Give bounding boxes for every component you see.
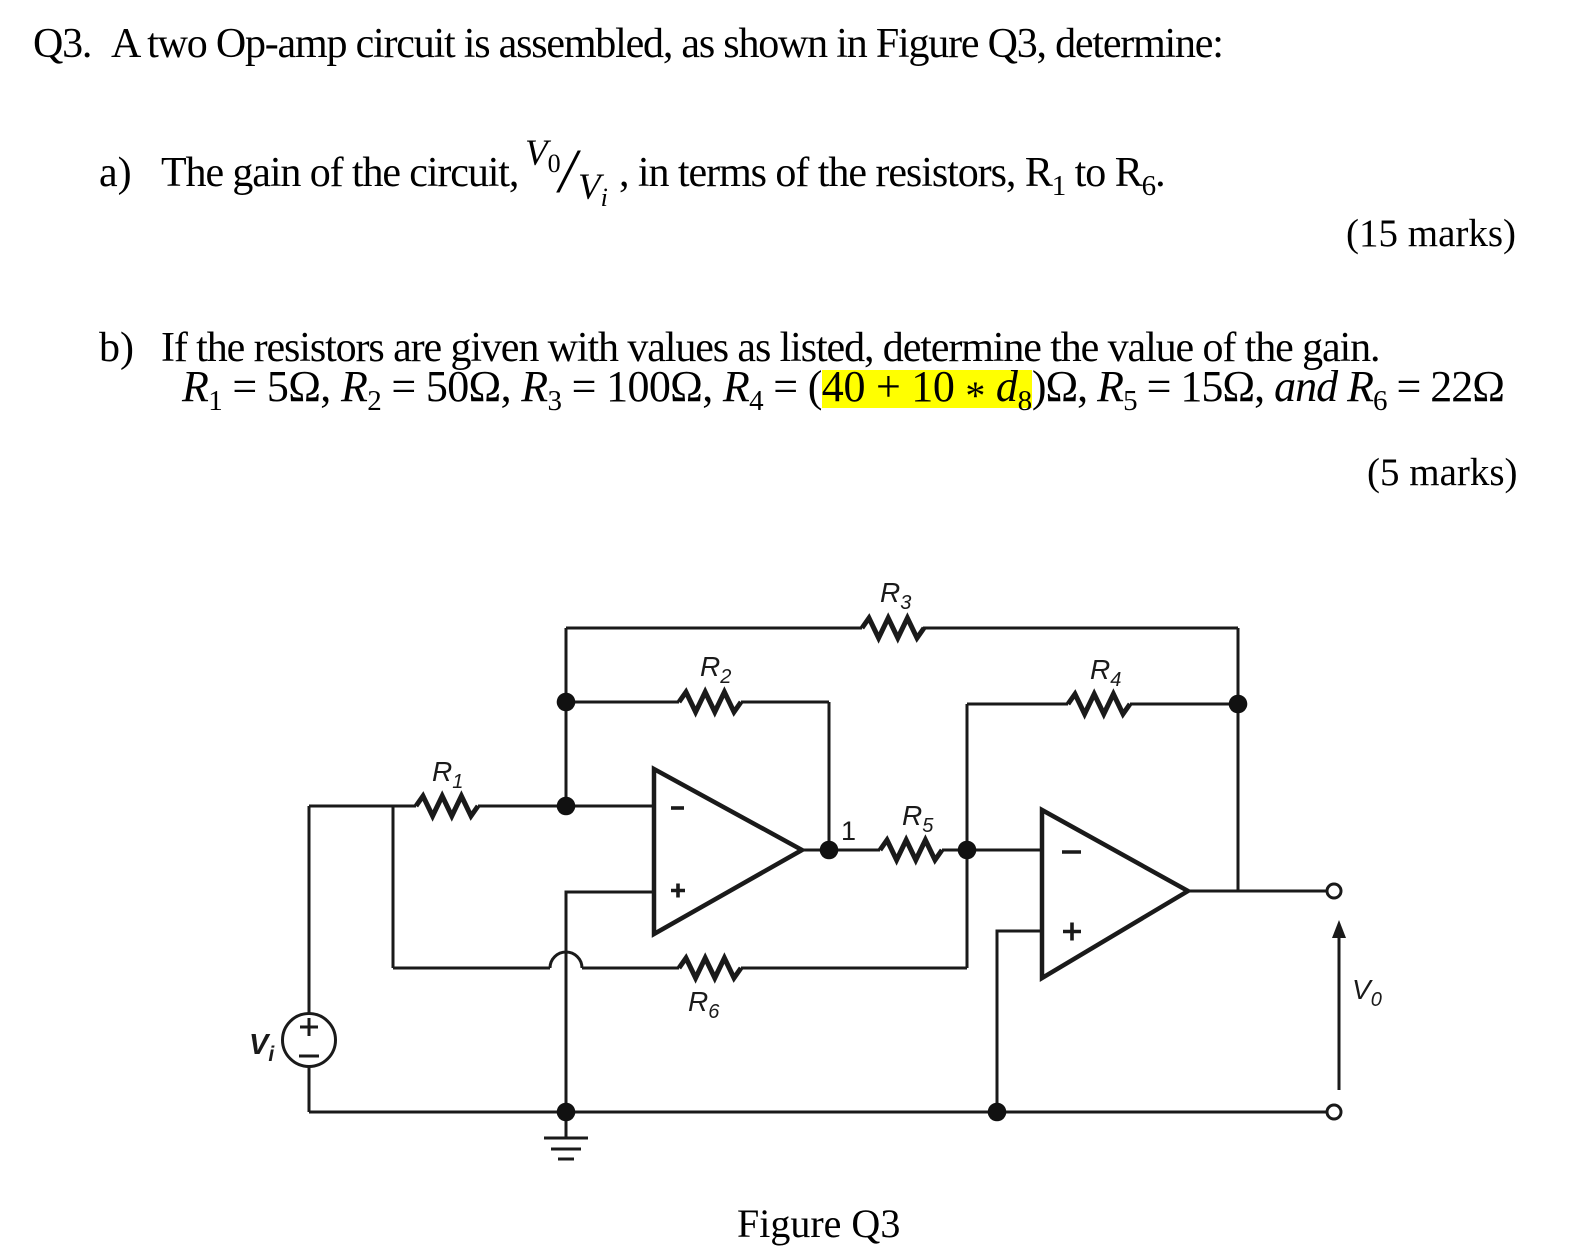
svg-text:V0: V0 <box>1352 974 1382 1011</box>
Vo arrow <box>1332 920 1346 1090</box>
fraction Vo/Vi <box>525 130 645 220</box>
wire: Vi source bottom lead <box>308 1066 311 1112</box>
op-amp U1 <box>654 769 802 934</box>
wire: R2 left segment <box>566 701 679 704</box>
op-amp U2 plus sign <box>1063 923 1081 941</box>
wire: hop over vertical (crossing arc) <box>550 952 582 968</box>
junction dot: op1 inverting node <box>557 797 576 816</box>
resistor R1 <box>416 796 478 816</box>
figure caption <box>737 1204 900 1244</box>
junction dot: op2 + ground node <box>988 1103 1007 1122</box>
wire: R6 rail right segment <box>741 967 967 970</box>
wire: Vi source top lead <box>308 806 311 1014</box>
wire: right vertical from R3 down to output <box>1237 628 1240 891</box>
wire: op2 non-inverting input down to ground rail <box>997 931 1042 1112</box>
junction dot: node A (R2/left bus) <box>557 693 576 712</box>
(5 marks) <box>1367 453 1518 492</box>
wire: top feedback (R3) right segment <box>923 627 1238 630</box>
wire: R2 right vertical down to op1 output <box>828 702 831 850</box>
resistor R5 <box>880 840 942 860</box>
ground <box>544 1112 588 1159</box>
wire: R1 to op1 inverting input <box>478 805 654 808</box>
svg-text:R3: R3 <box>880 577 911 614</box>
wire: R4 left segment <box>967 703 1068 706</box>
svg-text:R1: R1 <box>432 756 463 793</box>
wire: branch vertical down to R6 rail <box>392 806 395 968</box>
line a) <box>99 152 132 194</box>
wire: node B to op2 inverting input <box>967 849 1042 852</box>
svg-text:Vi: Vi <box>249 1029 275 1066</box>
terminal: output bottom <box>1327 1105 1341 1119</box>
junction dot: node 1 (op1 output) <box>820 841 839 860</box>
line b) <box>99 327 134 369</box>
source Vi plus sign <box>300 1018 318 1036</box>
op-amp U2 minus sign <box>1062 850 1081 854</box>
source Vi minus sign <box>299 1055 319 1058</box>
math values line <box>822 370 1032 408</box>
resistor R3 <box>862 618 924 638</box>
line 1: question text <box>33 23 1223 65</box>
wire: op1 non-inverting input down to ground rail <box>566 892 654 1112</box>
resistor R6 <box>679 958 741 978</box>
op-amp U2 <box>1042 810 1188 978</box>
wire: op1 output to R5 <box>802 849 880 852</box>
junction dot: R3/R4 right node <box>1229 695 1248 714</box>
source Vi <box>283 1014 336 1067</box>
(15 marks) <box>1346 214 1516 253</box>
wire: R4 right segment <box>1130 703 1238 706</box>
wire: R5 to node B <box>942 849 967 852</box>
terminal: output top <box>1327 884 1341 898</box>
junction dot: ground node <box>557 1103 576 1122</box>
wire: bottom ground rail <box>309 1111 1327 1114</box>
wire: R6 rail left segment <box>393 967 550 970</box>
wire: Vi to R1 <box>309 805 416 808</box>
wire: top feedback (R3) left segment <box>566 627 862 630</box>
op-amp U1 plus sign <box>671 884 685 898</box>
svg-text:R2: R2 <box>700 651 731 688</box>
svg-text:R6: R6 <box>688 986 720 1023</box>
wire: left vertical bus at node A <box>565 628 568 806</box>
junction dot: node B (op2 inverting) <box>958 841 977 860</box>
resistor R4 <box>1068 694 1130 714</box>
wire: op2 output to terminal <box>1188 890 1327 893</box>
svg-text:R5: R5 <box>902 800 934 837</box>
wire: R2 right segment <box>741 701 829 704</box>
wire: R6 rail mid segment <box>582 967 679 970</box>
op-amp U1 minus sign <box>671 806 684 810</box>
svg-text:1: 1 <box>841 816 856 846</box>
wire: mid vertical (R4 left / node B / R6) <box>966 704 969 968</box>
resistor R2 <box>679 692 741 712</box>
svg-text:R4: R4 <box>1090 654 1121 691</box>
